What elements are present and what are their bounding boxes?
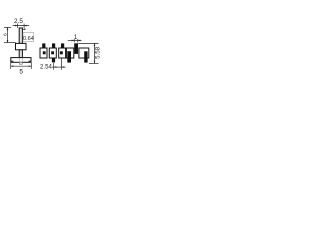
base plate (side view) (11, 58, 31, 63)
long pin through box 4 (67, 51, 71, 62)
pin mid (side view) (19, 50, 22, 58)
front view: box segment 3 (59, 48, 66, 58)
svg-text:5: 5 (19, 68, 23, 75)
dimension 5 arrows (11, 65, 32, 67)
dimension 5 label (19, 68, 23, 75)
dimension 5 lines (11, 63, 32, 69)
pin tab above box 2 (52, 43, 55, 48)
plastic body (side view) (16, 43, 27, 49)
right vertical dimension extension lines (78, 43, 98, 63)
tall pin in cut-away slot (74, 43, 78, 54)
dimension 2.54 label (40, 63, 52, 70)
0.64 framed label (23, 33, 34, 42)
right vertical dimension label 5.5 (94, 46, 101, 59)
pin bottom stub (side view) (19, 62, 22, 64)
pin upper (side view) (19, 28, 22, 43)
pin stub below box 2 (52, 58, 55, 62)
svg-text:6: 6 (3, 33, 9, 36)
0.64 leader arrow (23, 29, 26, 31)
left vertical dimension label 6 (3, 33, 9, 36)
pin cross-section dot box 2 (51, 51, 54, 54)
svg-text:5.58: 5.58 (94, 46, 100, 59)
dimension 2.54 arrows (54, 66, 64, 68)
dimension 2.5 label (14, 18, 23, 25)
front view: box segment 4 (66, 48, 73, 58)
dimension 1 label (74, 35, 78, 41)
pin cross-section dot box 3 (60, 51, 63, 54)
base plate feet (11, 61, 31, 62)
front view: box segment 1 (40, 48, 47, 58)
front view: box segment 2 (49, 48, 56, 58)
pin lines through base plate (19, 58, 22, 62)
pin tab above box 1 (42, 43, 45, 48)
svg-text:0.64: 0.64 (23, 36, 34, 42)
dimension 2.5 arrows (15, 25, 27, 27)
svg-text:2.54: 2.54 (40, 63, 52, 70)
left vertical dimension line (4, 27, 16, 42)
pin cross-section dot box 1 (43, 51, 46, 54)
front view: box segment 5 (right end) (79, 48, 89, 58)
long pin through box 5 (84, 51, 87, 62)
pin tab above box 3 (61, 43, 64, 48)
svg-text:2.5: 2.5 (14, 18, 23, 25)
right vertical dimension arrows (94, 43, 96, 63)
dimension 1 arrows (72, 40, 81, 42)
dimension 1 lines (68, 39, 82, 42)
dimension 2.54 lines (52, 58, 66, 69)
dimension 2.5 line (13, 24, 30, 28)
left vertical dimension arrows (7, 27, 9, 42)
